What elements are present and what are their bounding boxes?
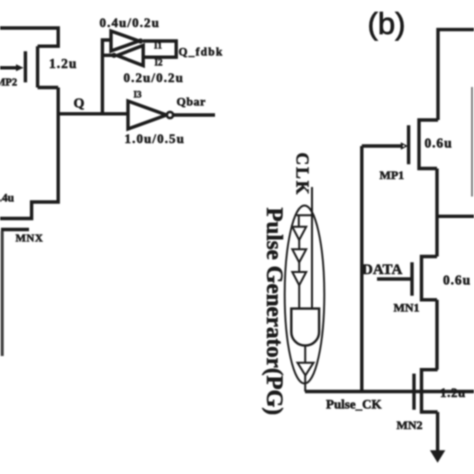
- svg-text:Pulse Generator(PG): Pulse Generator(PG): [262, 208, 287, 416]
- svg-text:Q: Q: [74, 97, 85, 112]
- wire CLK input: [297, 187, 313, 309]
- svg-text:0.6u: 0.6u: [443, 273, 471, 288]
- wire AND out: [304, 346, 306, 363]
- inverter I2: [117, 45, 143, 65]
- bubble I1: [138, 38, 143, 43]
- wire MN1 source to MN2 drain: [435, 300, 438, 370]
- svg-text:CLK: CLK: [293, 153, 313, 197]
- svg-text:MP2: MP2: [0, 78, 17, 89]
- wire VDD rail (b): [438, 30, 474, 120]
- wire feedback vertical: [102, 40, 111, 114]
- inverter chain triangle 1: [292, 227, 306, 240]
- wire: [298, 285, 300, 308]
- svg-text:0.2u/0.2u: 0.2u/0.2u: [124, 70, 184, 85]
- svg-text:Pulse_CK: Pulse_CK: [326, 397, 383, 412]
- inverter chain triangle 3: [292, 272, 306, 285]
- bubble I3: [167, 112, 173, 118]
- wire pulse to MP1 gate: [360, 146, 363, 392]
- ground: [430, 412, 445, 463]
- svg-text:MNX: MNX: [16, 232, 44, 244]
- transistor MN1: [377, 257, 437, 300]
- transistor MN2: [414, 370, 438, 412]
- wire drain node: [437, 169, 474, 257]
- transistor MNX gate bar: [1, 228, 29, 231]
- pulse generator ellipse: [285, 206, 325, 384]
- node Q wire: [58, 112, 128, 115]
- stub right edge: [471, 87, 473, 197]
- inverter I3: [128, 101, 167, 129]
- bubble I2: [111, 53, 116, 58]
- svg-text:1.2u: 1.2u: [49, 56, 77, 71]
- svg-text:I2: I2: [155, 58, 164, 68]
- wire pulse out: [304, 375, 306, 391]
- svg-text:1.0u/0.5u: 1.0u/0.5u: [125, 131, 185, 146]
- AND gate: [291, 309, 319, 346]
- wire I2 out stub: [102, 54, 114, 57]
- wire Q_fdbk loop: [143, 41, 176, 57]
- svg-text:I3: I3: [134, 90, 143, 100]
- transistor MP1: [362, 120, 438, 169]
- svg-text:0.6u: 0.6u: [425, 136, 453, 151]
- svg-text:DATA: DATA: [362, 262, 402, 278]
- wire MNX gate lead: [1, 231, 4, 356]
- svg-text:MN2: MN2: [397, 418, 423, 432]
- inverter I1: [111, 31, 139, 51]
- svg-text:MP1: MP1: [380, 168, 405, 182]
- wire MP2 drain down to step: [0, 88, 58, 219]
- wire Pulse_CK: [305, 390, 474, 393]
- svg-text:Q_fdbk: Q_fdbk: [179, 47, 224, 59]
- svg-text:0.4u/0.2u: 0.4u/0.2u: [100, 15, 160, 30]
- svg-text:(b): (b): [368, 6, 406, 41]
- wire Qbar: [173, 113, 215, 116]
- inverter I4: [298, 363, 314, 376]
- wire: [298, 262, 300, 272]
- svg-text:MN1: MN1: [394, 301, 420, 315]
- wire: [298, 240, 300, 249]
- svg-text:0.4u: 0.4u: [0, 193, 15, 205]
- inverter chain triangle 2: [292, 249, 306, 262]
- wire VDD stub (a): [0, 28, 58, 46]
- svg-text:1.2u: 1.2u: [440, 385, 466, 400]
- svg-text:Qbar: Qbar: [177, 95, 207, 109]
- transistor MP2: [0, 46, 58, 87]
